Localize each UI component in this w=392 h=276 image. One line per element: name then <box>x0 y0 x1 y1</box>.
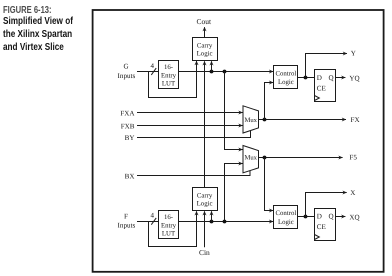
figure number caption <box>3 5 52 16</box>
svg-text:G: G <box>123 63 128 71</box>
control logic F box <box>274 206 298 229</box>
label G Inputs <box>118 63 136 80</box>
wire F LUT output to control logic <box>179 221 274 223</box>
svg-text:Carry: Carry <box>197 192 213 199</box>
clock triangle XQ <box>315 235 320 240</box>
label bus width 4 (G) <box>151 62 155 70</box>
svg-text:Control: Control <box>276 210 297 217</box>
bus slash G <box>151 68 156 75</box>
node FX output tap <box>263 118 267 122</box>
wire BY to mux FX select <box>137 131 251 138</box>
svg-text:D: D <box>317 213 322 221</box>
svg-text:Cout: Cout <box>197 17 213 26</box>
svg-text:Mux: Mux <box>244 154 257 161</box>
svg-text:CE: CE <box>317 84 326 92</box>
figure title caption <box>3 15 73 55</box>
wire FX tap to control logic G <box>265 83 274 120</box>
svg-text:Cin: Cin <box>199 248 210 257</box>
wire X output <box>306 193 347 217</box>
wire F5 tap to control logic F <box>265 158 274 211</box>
wire F output to F5 mux lower input <box>225 164 243 222</box>
svg-text:Q: Q <box>328 213 333 221</box>
svg-text:16-: 16- <box>164 64 174 71</box>
svg-text:Entry: Entry <box>161 222 177 229</box>
label FXB <box>121 123 135 131</box>
svg-text:FX: FX <box>351 116 360 124</box>
wire control logic G to D flip-flop <box>298 77 315 79</box>
wire G feedback loop to carry <box>149 61 197 98</box>
label Cout <box>197 17 213 26</box>
svg-text:4: 4 <box>151 212 155 220</box>
wire BX to mux F5 select <box>137 171 250 176</box>
svg-text:FXA: FXA <box>120 109 135 117</box>
wire F line into carry logic <box>211 211 213 221</box>
wire FXA to mux <box>137 112 243 114</box>
svg-text:Q: Q <box>328 74 333 82</box>
wire F5 output <box>259 157 343 159</box>
label YQ <box>349 75 359 83</box>
node F output / carry tap <box>210 220 214 224</box>
node F output / F5 mux tap <box>223 220 227 224</box>
wire YQ output <box>336 77 346 79</box>
wire XQ output <box>336 216 346 218</box>
svg-text:Control: Control <box>276 70 297 77</box>
wire G line into carry logic <box>211 61 213 71</box>
label X <box>350 189 355 197</box>
node G output / F5 mux tap <box>223 70 227 74</box>
svg-text:D: D <box>317 74 322 82</box>
svg-text:LUT: LUT <box>162 81 176 88</box>
svg-text:FXB: FXB <box>121 123 135 131</box>
svg-text:Logic: Logic <box>197 201 213 208</box>
flip-flop XQ box <box>315 209 336 241</box>
mux F5 <box>243 146 259 173</box>
svg-text:XQ: XQ <box>349 214 359 222</box>
svg-text:BY: BY <box>125 134 135 142</box>
label BX <box>125 172 135 180</box>
node X tap <box>304 215 308 219</box>
wire Y output <box>306 54 348 78</box>
svg-text:Logic: Logic <box>278 219 294 226</box>
flip-flop YQ box <box>315 70 336 102</box>
wire G output to F5 mux upper input <box>225 72 243 150</box>
wire G input bus <box>137 71 159 73</box>
svg-text:16-: 16- <box>164 214 174 221</box>
wire F input bus <box>137 221 159 223</box>
svg-text:Y: Y <box>351 50 356 58</box>
label FXA <box>120 109 135 117</box>
LUT F (16-Entry LUT) <box>159 211 179 239</box>
mux FX <box>243 106 259 133</box>
wire control logic F to D flip-flop <box>298 216 315 218</box>
wire carry chain (lower carry to upper carry) <box>204 61 206 187</box>
carry logic G box <box>193 38 218 61</box>
wire F feedback loop to carry <box>149 211 197 246</box>
wire G LUT output to control logic <box>179 71 274 73</box>
label Y <box>351 50 356 58</box>
svg-text:Carry: Carry <box>197 42 213 49</box>
carry logic F box <box>193 188 218 211</box>
svg-text:YQ: YQ <box>349 75 359 83</box>
svg-text:X: X <box>350 189 355 197</box>
node F5 output tap <box>263 156 267 160</box>
svg-text:BX: BX <box>125 172 135 180</box>
svg-text:F: F <box>124 212 128 220</box>
wire FXB to mux <box>137 125 243 127</box>
label F Inputs <box>118 212 136 229</box>
svg-text:Entry: Entry <box>161 72 177 79</box>
svg-text:LUT: LUT <box>162 231 176 238</box>
label F5 <box>349 154 357 162</box>
svg-text:Inputs: Inputs <box>118 72 136 80</box>
bus slash F <box>151 218 156 225</box>
wire Cout <box>204 27 206 37</box>
wire Cin <box>204 211 206 247</box>
node Y tap <box>304 76 308 80</box>
svg-text:F5: F5 <box>349 154 357 162</box>
svg-text:CE: CE <box>317 223 326 231</box>
LUT G (16-Entry LUT) <box>159 61 179 89</box>
label BY <box>125 134 135 142</box>
svg-text:Mux: Mux <box>244 117 257 124</box>
svg-text:Logic: Logic <box>278 79 294 86</box>
svg-text:4: 4 <box>151 62 155 70</box>
svg-text:Logic: Logic <box>197 51 213 58</box>
label bus width 4 (F) <box>151 212 155 220</box>
frame border <box>93 10 384 272</box>
wire FX output <box>259 119 347 121</box>
label XQ <box>349 214 359 222</box>
clock triangle YQ <box>315 96 320 101</box>
svg-text:Inputs: Inputs <box>118 222 136 230</box>
control logic G box <box>274 66 298 89</box>
label FX <box>351 116 360 124</box>
label Cin <box>199 248 210 257</box>
node G output / carry tap <box>210 70 214 74</box>
